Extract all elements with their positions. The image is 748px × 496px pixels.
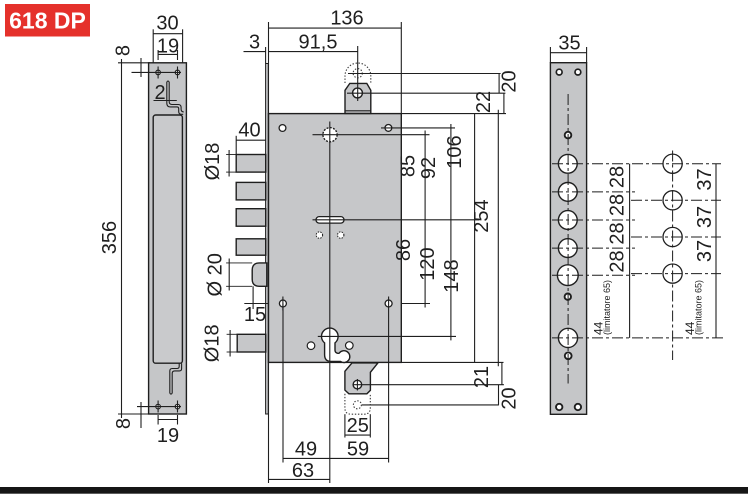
svg-text:8: 8 <box>113 45 135 56</box>
svg-text:2: 2 <box>154 82 165 104</box>
svg-text:19: 19 <box>157 425 179 447</box>
svg-text:25: 25 <box>347 415 369 437</box>
dim Ø20 <box>226 259 252 291</box>
bottom black bar <box>0 487 748 494</box>
dim 8 bottom <box>140 402 142 428</box>
svg-text:37: 37 <box>694 168 716 190</box>
bottom bent tab <box>170 363 182 394</box>
svg-text:20: 20 <box>499 70 521 92</box>
svg-text:136: 136 <box>330 8 363 30</box>
svg-text:49: 49 <box>295 439 317 461</box>
svg-text:28: 28 <box>607 250 629 272</box>
svg-text:254: 254 <box>471 199 493 232</box>
svg-text:618 DP: 618 DP <box>9 8 86 34</box>
svg-text:106: 106 <box>444 135 466 168</box>
inner plate rounded rect <box>153 115 182 363</box>
small hole lower <box>565 352 572 359</box>
model label 618 DP <box>5 4 90 37</box>
small hole upper <box>565 132 572 139</box>
plate screw hole top-right <box>175 70 180 75</box>
horizontal centerlines circles <box>631 200 721 273</box>
bottom mounting tab <box>345 363 378 394</box>
right side extension lines <box>401 114 506 363</box>
top tab dashed alternate outline <box>345 63 371 83</box>
svg-text:91,5: 91,5 <box>299 32 338 54</box>
dim 136 <box>269 22 402 114</box>
keyhole double-bit cutout <box>322 328 350 362</box>
deadbolt 4 <box>236 239 266 255</box>
big hole 2 <box>558 183 577 202</box>
horizontal centerlines plate holes <box>552 164 726 338</box>
deadbolt 1 <box>236 155 266 173</box>
dim 37 line <box>715 164 717 338</box>
top tab hole <box>353 88 363 98</box>
dim 63 <box>269 362 330 483</box>
body top-left hole <box>279 125 286 132</box>
right faceplate <box>550 63 586 415</box>
svg-text:22: 22 <box>473 91 495 113</box>
vertical centerline circles <box>672 151 674 361</box>
faceplate plate <box>149 63 187 414</box>
svg-text:86: 86 <box>393 239 415 261</box>
small dashed hole right of centerline <box>338 232 344 238</box>
svg-text:37: 37 <box>694 206 716 228</box>
top mounting tab <box>345 83 371 113</box>
dim 8 top <box>140 58 142 77</box>
dim 40 <box>236 136 266 155</box>
follower hole dashed <box>323 128 337 142</box>
big hole 4 <box>558 239 577 258</box>
dim 25 <box>345 414 370 437</box>
dim 254 line <box>497 110 499 367</box>
bottom tab hole <box>353 380 362 389</box>
svg-text:37: 37 <box>694 240 716 262</box>
circle 3 <box>663 227 682 246</box>
svg-text:20: 20 <box>499 387 521 409</box>
top tab dashed hole <box>353 69 362 78</box>
big hole 6 <box>558 328 577 347</box>
top screw holes <box>556 69 562 75</box>
plate screw hole bottom-right <box>175 404 180 409</box>
dim 22 line <box>503 93 505 113</box>
circle 4 <box>663 264 682 283</box>
body top-right hole <box>385 125 392 132</box>
dim 3 <box>244 47 266 64</box>
dim 356 line <box>118 59 150 418</box>
dim 49/59 <box>283 304 389 463</box>
svg-text:Ø18: Ø18 <box>202 324 224 362</box>
svg-text:120: 120 <box>417 247 439 280</box>
svg-text:28: 28 <box>607 194 629 216</box>
bottom tab dotted hole <box>353 401 361 409</box>
keyhole side hole right <box>346 342 354 350</box>
svg-text:15: 15 <box>244 304 266 326</box>
circle 2 <box>663 191 682 210</box>
dim 19 top <box>158 50 177 60</box>
svg-text:28: 28 <box>607 222 629 244</box>
svg-text:63: 63 <box>292 460 314 482</box>
plate screw hole bottom-left <box>156 404 161 409</box>
dim 2 <box>154 100 177 102</box>
big hole 3 <box>558 211 577 230</box>
dim 28 line <box>629 164 631 338</box>
svg-text:85: 85 <box>398 155 420 177</box>
hole centerline bottom <box>137 406 181 408</box>
deadbolt 3 <box>236 209 266 227</box>
dim 19 bottom <box>158 415 177 425</box>
deadbolt 5 bottom <box>237 334 266 352</box>
plate vertical centerline <box>567 94 569 384</box>
dim 30 <box>153 29 182 63</box>
svg-text:35: 35 <box>558 33 580 55</box>
dim 21 line <box>501 362 503 384</box>
oval slot <box>316 217 344 224</box>
dim 35 <box>550 47 586 63</box>
central vertical centerline <box>329 122 331 484</box>
svg-text:148: 148 <box>441 259 463 292</box>
big hole 1 <box>558 154 577 173</box>
svg-text:40: 40 <box>238 120 260 142</box>
svg-text:28: 28 <box>607 166 629 188</box>
dim Ø18 top <box>226 150 236 177</box>
svg-text:(limitatore 65): (limitatore 65) <box>602 280 612 335</box>
svg-text:8: 8 <box>113 418 135 429</box>
svg-text:59: 59 <box>347 439 369 461</box>
svg-text:Ø18: Ø18 <box>202 143 224 181</box>
dim 15 <box>244 286 430 309</box>
top bent tab (2mm) <box>167 81 184 114</box>
bottom screw holes <box>556 404 562 410</box>
dim 85/86 line <box>424 131 426 308</box>
circle 1 <box>663 154 682 173</box>
svg-text:356: 356 <box>99 221 121 254</box>
small hole mid <box>565 294 571 300</box>
svg-text:30: 30 <box>156 13 178 35</box>
dim 91,5 <box>269 51 358 53</box>
latch bolt Ø20 <box>252 263 267 286</box>
small dashed hole left of centerline <box>316 232 322 238</box>
faceplate edge strip <box>266 64 269 415</box>
dim 92/120 line <box>450 124 452 340</box>
body bottom-left hole <box>279 300 286 307</box>
keyhole side hole left <box>307 342 315 350</box>
bottom tab dotted extension <box>345 394 370 414</box>
plate screw hole top-left <box>156 70 161 75</box>
body bottom-right hole <box>385 300 392 307</box>
dim 20 top line <box>498 74 500 94</box>
dim 20 bottom line <box>498 385 500 405</box>
hole centerline top <box>132 71 182 73</box>
lock body <box>269 114 402 363</box>
svg-text:Ø 20: Ø 20 <box>205 253 227 296</box>
svg-text:92: 92 <box>418 157 440 179</box>
deadbolt 2 <box>236 182 266 200</box>
svg-text:3: 3 <box>249 32 260 54</box>
dim Ø18 bottom <box>227 330 238 357</box>
dim 106/148 line <box>474 114 476 363</box>
svg-text:19: 19 <box>157 36 179 58</box>
svg-text:(limitatore 65): (limitatore 65) <box>694 280 704 335</box>
svg-text:21: 21 <box>471 366 493 388</box>
big hole 5 <box>557 265 578 286</box>
